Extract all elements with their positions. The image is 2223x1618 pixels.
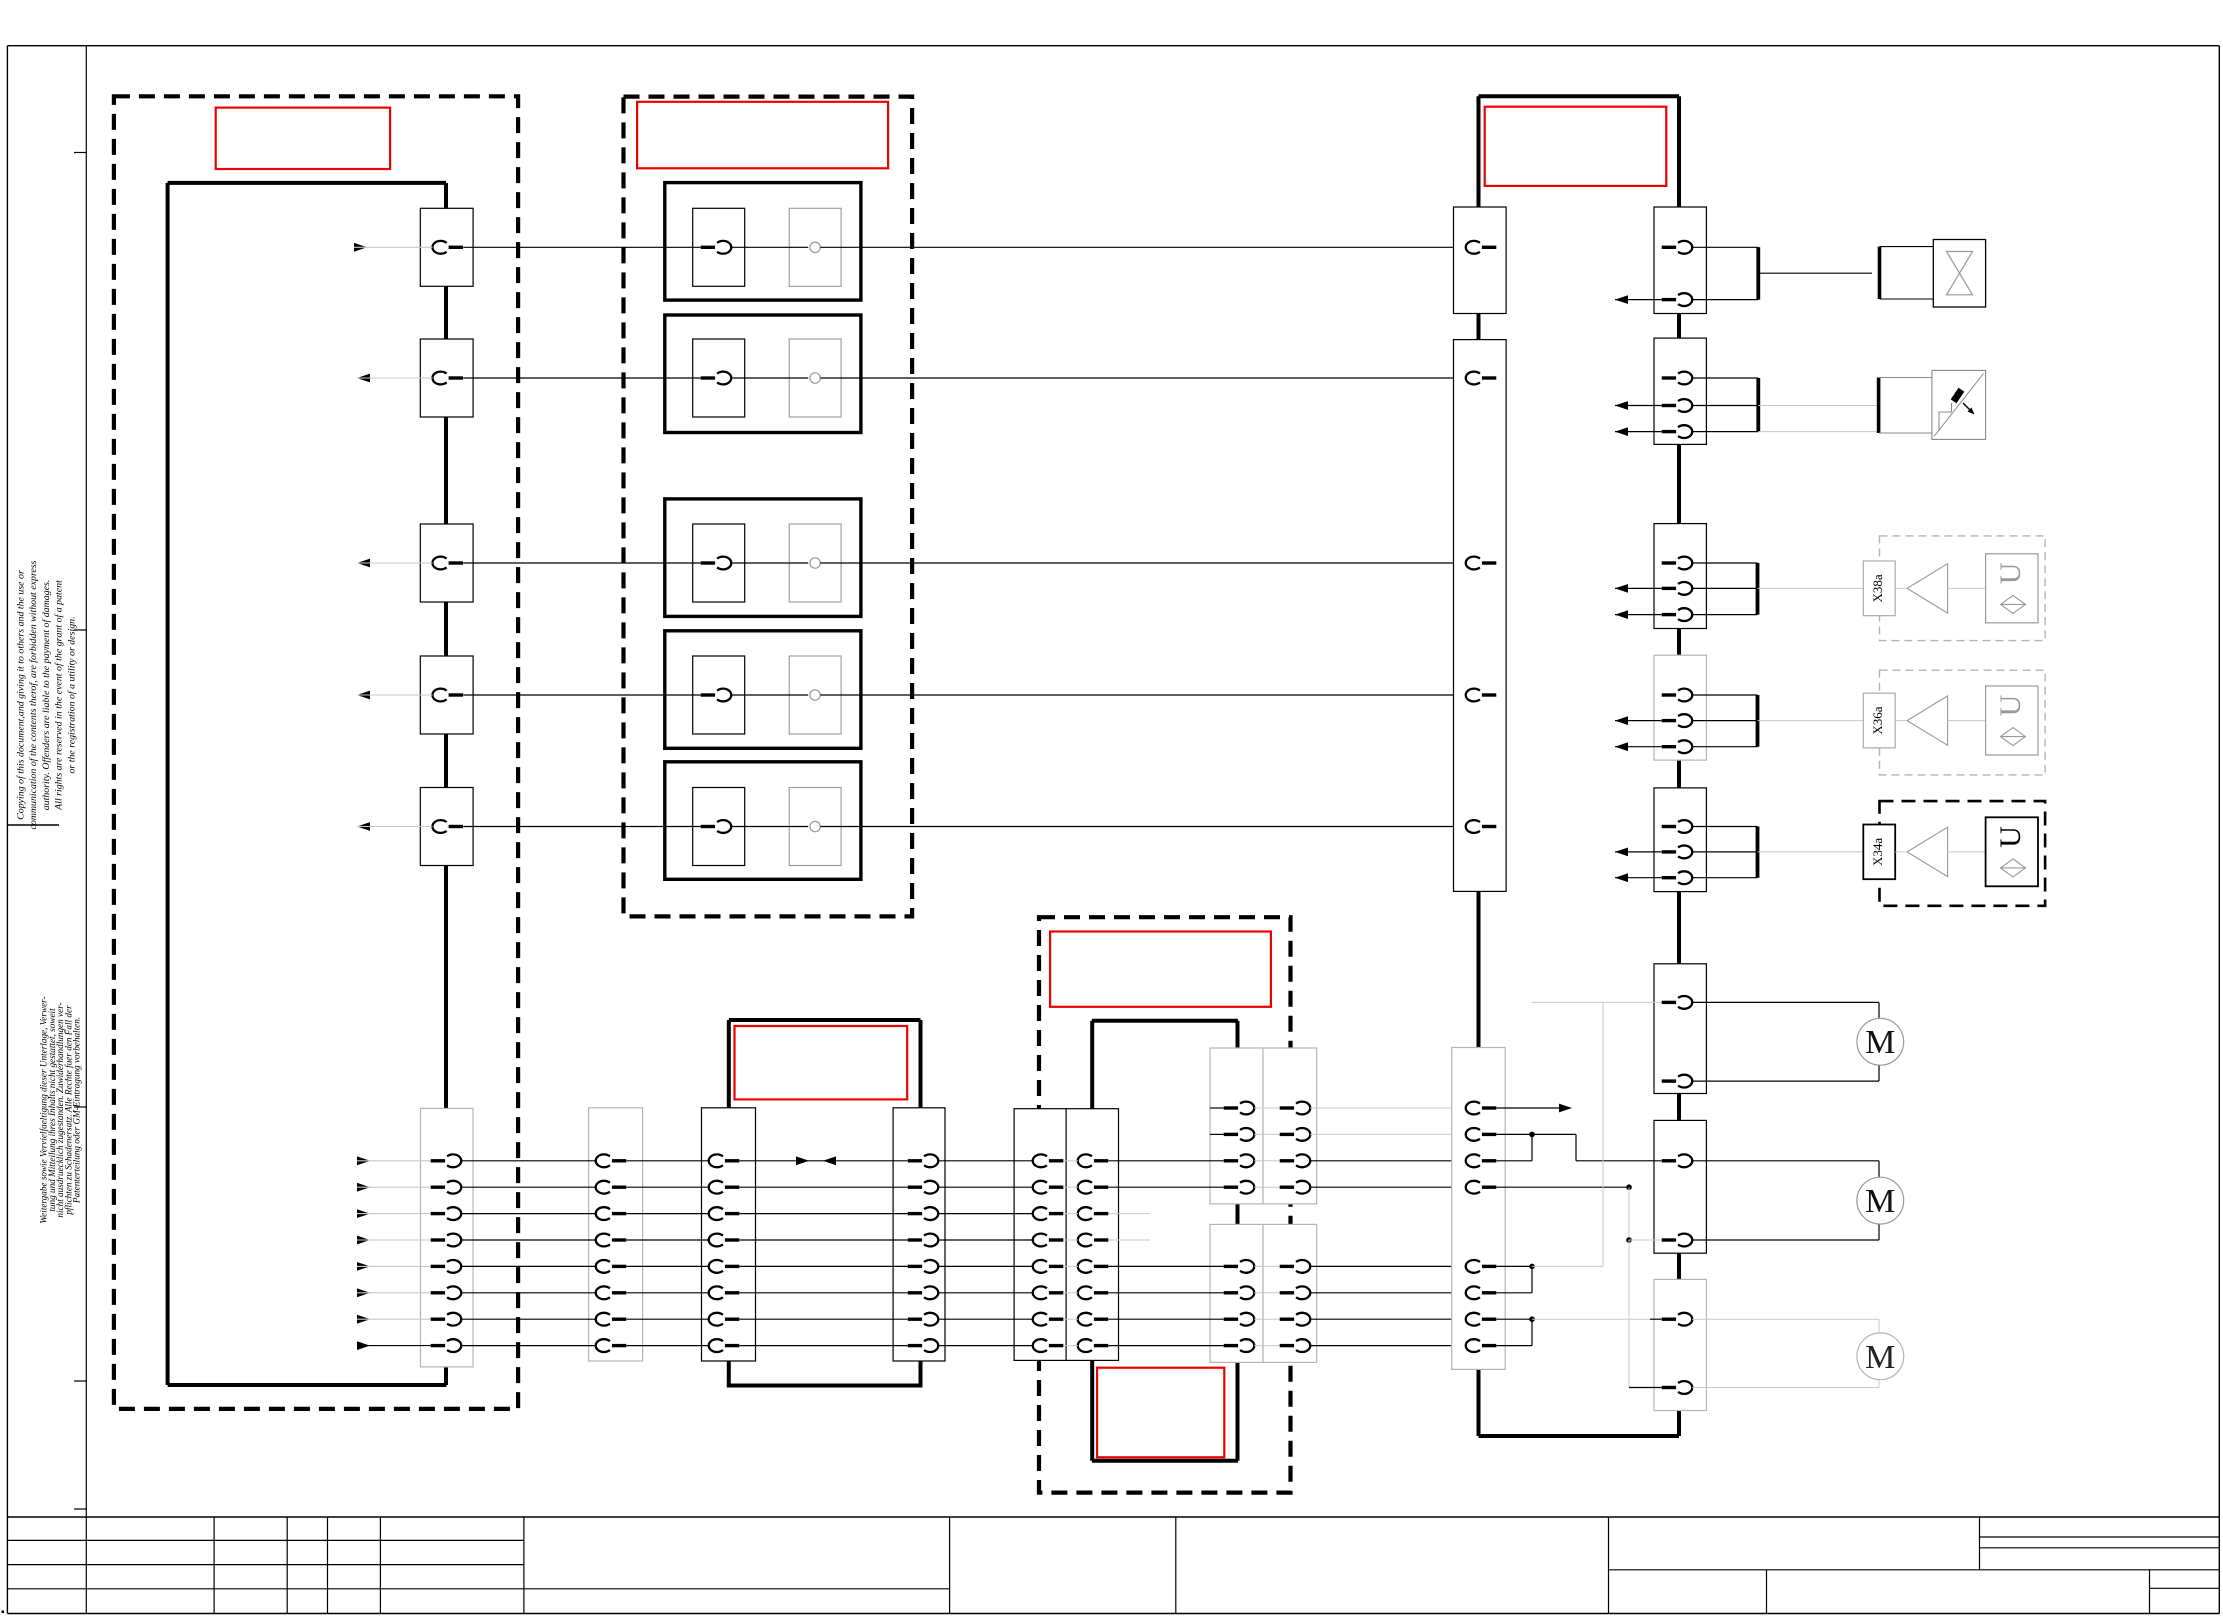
wires shield to sensor B1 bbox=[1758, 405, 1878, 407]
cable shield bar (valve) bbox=[1756, 247, 1760, 299]
svg-text:U: U bbox=[1994, 694, 2027, 716]
gray riser from r5 up bbox=[1602, 1002, 1604, 1266]
frame margin column bbox=[85, 46, 87, 1517]
arrows on A50 right side outputs bbox=[1615, 295, 1628, 304]
connector X50a bbox=[1454, 207, 1507, 314]
motor M3 bbox=[1857, 1333, 1904, 1380]
cabinet A10 dashed enclosure bbox=[114, 96, 518, 1409]
wires X53.2/.3 to shield bbox=[1692, 405, 1758, 407]
corner mark bbox=[2, 1611, 5, 1614]
net r1 cross-link bbox=[1497, 1160, 1533, 1162]
connector X59 bbox=[1654, 1279, 1706, 1410]
relay K25 bbox=[665, 762, 861, 880]
connector X56 bbox=[1654, 788, 1706, 892]
cable shield bar (X36a) bbox=[1756, 695, 1760, 747]
diaphragm diamond (X34a) bbox=[2001, 859, 2026, 877]
connector X57 bbox=[1654, 964, 1706, 1094]
arrows into X16 bbox=[357, 1156, 370, 1165]
connector X36a label box bbox=[1863, 693, 1895, 748]
horn triangle (X38a) bbox=[1907, 564, 1948, 613]
motor M3 wires bbox=[1692, 1318, 1879, 1320]
cable shield bar (X34a) bbox=[1756, 827, 1760, 878]
horn triangle (X36a) bbox=[1907, 696, 1948, 745]
speaker U-box (X34a) bbox=[1986, 817, 2038, 886]
motor M1 bbox=[1857, 1018, 1904, 1065]
wire shield to X38a bbox=[1758, 587, 1864, 589]
connector X34a label box bbox=[1863, 825, 1895, 880]
wire shield to X36a bbox=[1758, 720, 1864, 722]
wire triangle to U-box (X38a) bbox=[1895, 587, 1907, 589]
cable shield bar (X38a) bbox=[1756, 563, 1760, 615]
svg-text:communication of the contents: communication of the contents therof, ar… bbox=[28, 560, 39, 829]
svg-text:U: U bbox=[1994, 826, 2027, 848]
connector X38a label box bbox=[1863, 561, 1895, 616]
speaker group X38a dashed box bbox=[1880, 536, 2046, 641]
label A50 (red) bbox=[1485, 107, 1667, 186]
connector X42a upper group bbox=[1210, 1048, 1263, 1204]
connector X32 (A30 right col) bbox=[893, 1108, 945, 1361]
unit A10 internal bus wire bbox=[444, 183, 448, 208]
speaker group X34a dashed box bbox=[1880, 801, 2046, 906]
connector X52 bbox=[1654, 207, 1706, 314]
svg-text:M: M bbox=[1865, 1339, 1895, 1376]
wire X52.2 to shield bbox=[1692, 299, 1758, 301]
svg-text:Copying of this document,and g: Copying of this document,and giving it t… bbox=[16, 570, 27, 820]
net q1 output arrow bbox=[1497, 1107, 1563, 1109]
svg-text:M: M bbox=[1865, 1183, 1895, 1220]
stubs left of X42 rows q1 q2 bbox=[1210, 1107, 1224, 1109]
wire X53.1 to shield bbox=[1692, 377, 1758, 379]
relay K21 bbox=[665, 183, 861, 301]
wire X38a row1 to shield bbox=[1692, 562, 1757, 564]
svg-text:or the registration of a utili: or the registration of a utility or desi… bbox=[66, 616, 77, 773]
margin divider bbox=[7, 824, 59, 826]
wires X42/X43 internal links bbox=[1254, 1107, 1279, 1109]
wire triangle to U-box (X36a) bbox=[1895, 720, 1907, 722]
sensor B1 body bbox=[1932, 370, 1986, 439]
connector X41a (pair left) bbox=[1014, 1109, 1066, 1361]
connector X41b (pair right) bbox=[1066, 1109, 1118, 1361]
wire X34a row1 to shield bbox=[1692, 826, 1757, 828]
speaker U-box (X36a) bbox=[1986, 686, 2038, 755]
fold mark ticks bbox=[74, 152, 86, 154]
svg-text:M: M bbox=[1865, 1024, 1895, 1061]
valve Y1 plug bbox=[1878, 247, 1882, 299]
connector X51 (A50 bottom left) bbox=[1452, 1048, 1506, 1370]
title block grid bbox=[7, 1516, 2219, 1518]
wires X41 pair onward bbox=[1109, 1160, 1224, 1162]
net q2 cross-link bbox=[1497, 1133, 1577, 1135]
arrows out of X12-X15 bbox=[357, 374, 370, 383]
connector X30 (loose col left of A30) bbox=[589, 1108, 643, 1361]
wires rows X11-X15 to relays and A50 bbox=[463, 246, 700, 248]
net r2 to X58.2 bbox=[1497, 1186, 1630, 1188]
svg-text:U: U bbox=[1994, 562, 2027, 584]
label A10 (red) bbox=[216, 108, 390, 169]
connector X43b lower group bbox=[1263, 1224, 1317, 1362]
connector X31 (A30 left col) bbox=[702, 1108, 756, 1361]
valve Y1 hourglass symbol bbox=[1947, 252, 1973, 274]
label A41 bottom (red) bbox=[1097, 1368, 1224, 1458]
label A40 top (red) bbox=[1050, 932, 1271, 1007]
connector X16 (A10 bottom, 8 ways) bbox=[421, 1108, 474, 1367]
wire triangle to U-box (X34a) bbox=[1895, 851, 1907, 853]
connector X54 bbox=[1654, 524, 1706, 629]
diaphragm diamond (X38a) bbox=[2001, 595, 2026, 613]
motor M2 bbox=[1857, 1177, 1904, 1224]
wires X16 to X30/X31 bbox=[461, 1160, 596, 1162]
page frame bbox=[7, 45, 2219, 47]
wires X42/X43 to X51 bbox=[1310, 1107, 1466, 1109]
wires X32 to X41 pair bbox=[938, 1160, 1033, 1162]
sensor B1 diagonal bbox=[1934, 374, 1984, 437]
connector X43a lower group bbox=[1210, 1224, 1263, 1362]
wires X31 to X32 (through A30) bbox=[740, 1160, 908, 1162]
connector X50b (tall) bbox=[1454, 340, 1507, 892]
svg-text:Patenterteilung oder GM-Eintra: Patenterteilung oder GM-Eintragung vorbe… bbox=[72, 1017, 82, 1204]
sensor B1 plug bbox=[1877, 378, 1881, 434]
gray riser to X59.2 bbox=[1628, 1240, 1630, 1388]
svg-text:X38a: X38a bbox=[1870, 574, 1885, 602]
relay K23 bbox=[665, 499, 861, 617]
unit A41 thick outline bbox=[1092, 1019, 1238, 1023]
horn triangle (X34a) bbox=[1907, 827, 1948, 876]
svg-text:X34a: X34a bbox=[1870, 838, 1885, 866]
wire shield to valve Y1 bbox=[1758, 272, 1872, 274]
unit A10 thick outline bbox=[166, 183, 170, 1385]
connectors X11-X15 on A10 bbox=[420, 208, 473, 286]
wire shield to X34a bbox=[1758, 851, 1864, 853]
unit A50 thick outline bbox=[1479, 94, 1680, 98]
arrow into X11 bbox=[354, 243, 367, 252]
relay K22 bbox=[665, 315, 861, 433]
motor M2 wires bbox=[1692, 1160, 1879, 1162]
svg-text:X36a: X36a bbox=[1870, 706, 1885, 734]
speaker group X36a dashed box bbox=[1880, 670, 2046, 775]
diaphragm diamond (X36a) bbox=[2001, 728, 2026, 746]
svg-text:All rights are reserved in the: All rights are reserved in the event of … bbox=[54, 580, 65, 811]
wire X52.1 to shield bbox=[1692, 246, 1758, 248]
mating direction arrows row r1 bbox=[796, 1156, 809, 1165]
svg-text:authority. Offenders are liabl: authority. Offenders are liable to the p… bbox=[41, 580, 52, 811]
connector X58 bbox=[1654, 1120, 1706, 1253]
connector X53 bbox=[1654, 338, 1706, 444]
wire X36a row1 to shield bbox=[1692, 694, 1757, 696]
motor M1 wires bbox=[1692, 1001, 1879, 1003]
relay K24 bbox=[665, 631, 861, 749]
cable shield bar (sensor) bbox=[1756, 378, 1760, 432]
cabinet A20 dashed enclosure bbox=[624, 97, 913, 917]
unit A30 thick outline bbox=[729, 1018, 921, 1022]
net r5/r6 pair bbox=[1497, 1265, 1533, 1267]
speaker U-box (X38a) bbox=[1986, 554, 2038, 623]
net r7/r8 pair bbox=[1497, 1318, 1533, 1320]
valve Y1 body bbox=[1933, 240, 1985, 308]
label A30 (red) bbox=[735, 1026, 908, 1099]
sensor B1 step line bbox=[1939, 403, 1952, 431]
label A20 (red) bbox=[637, 102, 888, 169]
cabinet A40 dashed enclosure bbox=[1039, 917, 1291, 1492]
sensor B1 wiper element bbox=[1951, 388, 1965, 404]
connector X42b upper group bbox=[1263, 1048, 1317, 1204]
connector X55 bbox=[1654, 655, 1706, 760]
